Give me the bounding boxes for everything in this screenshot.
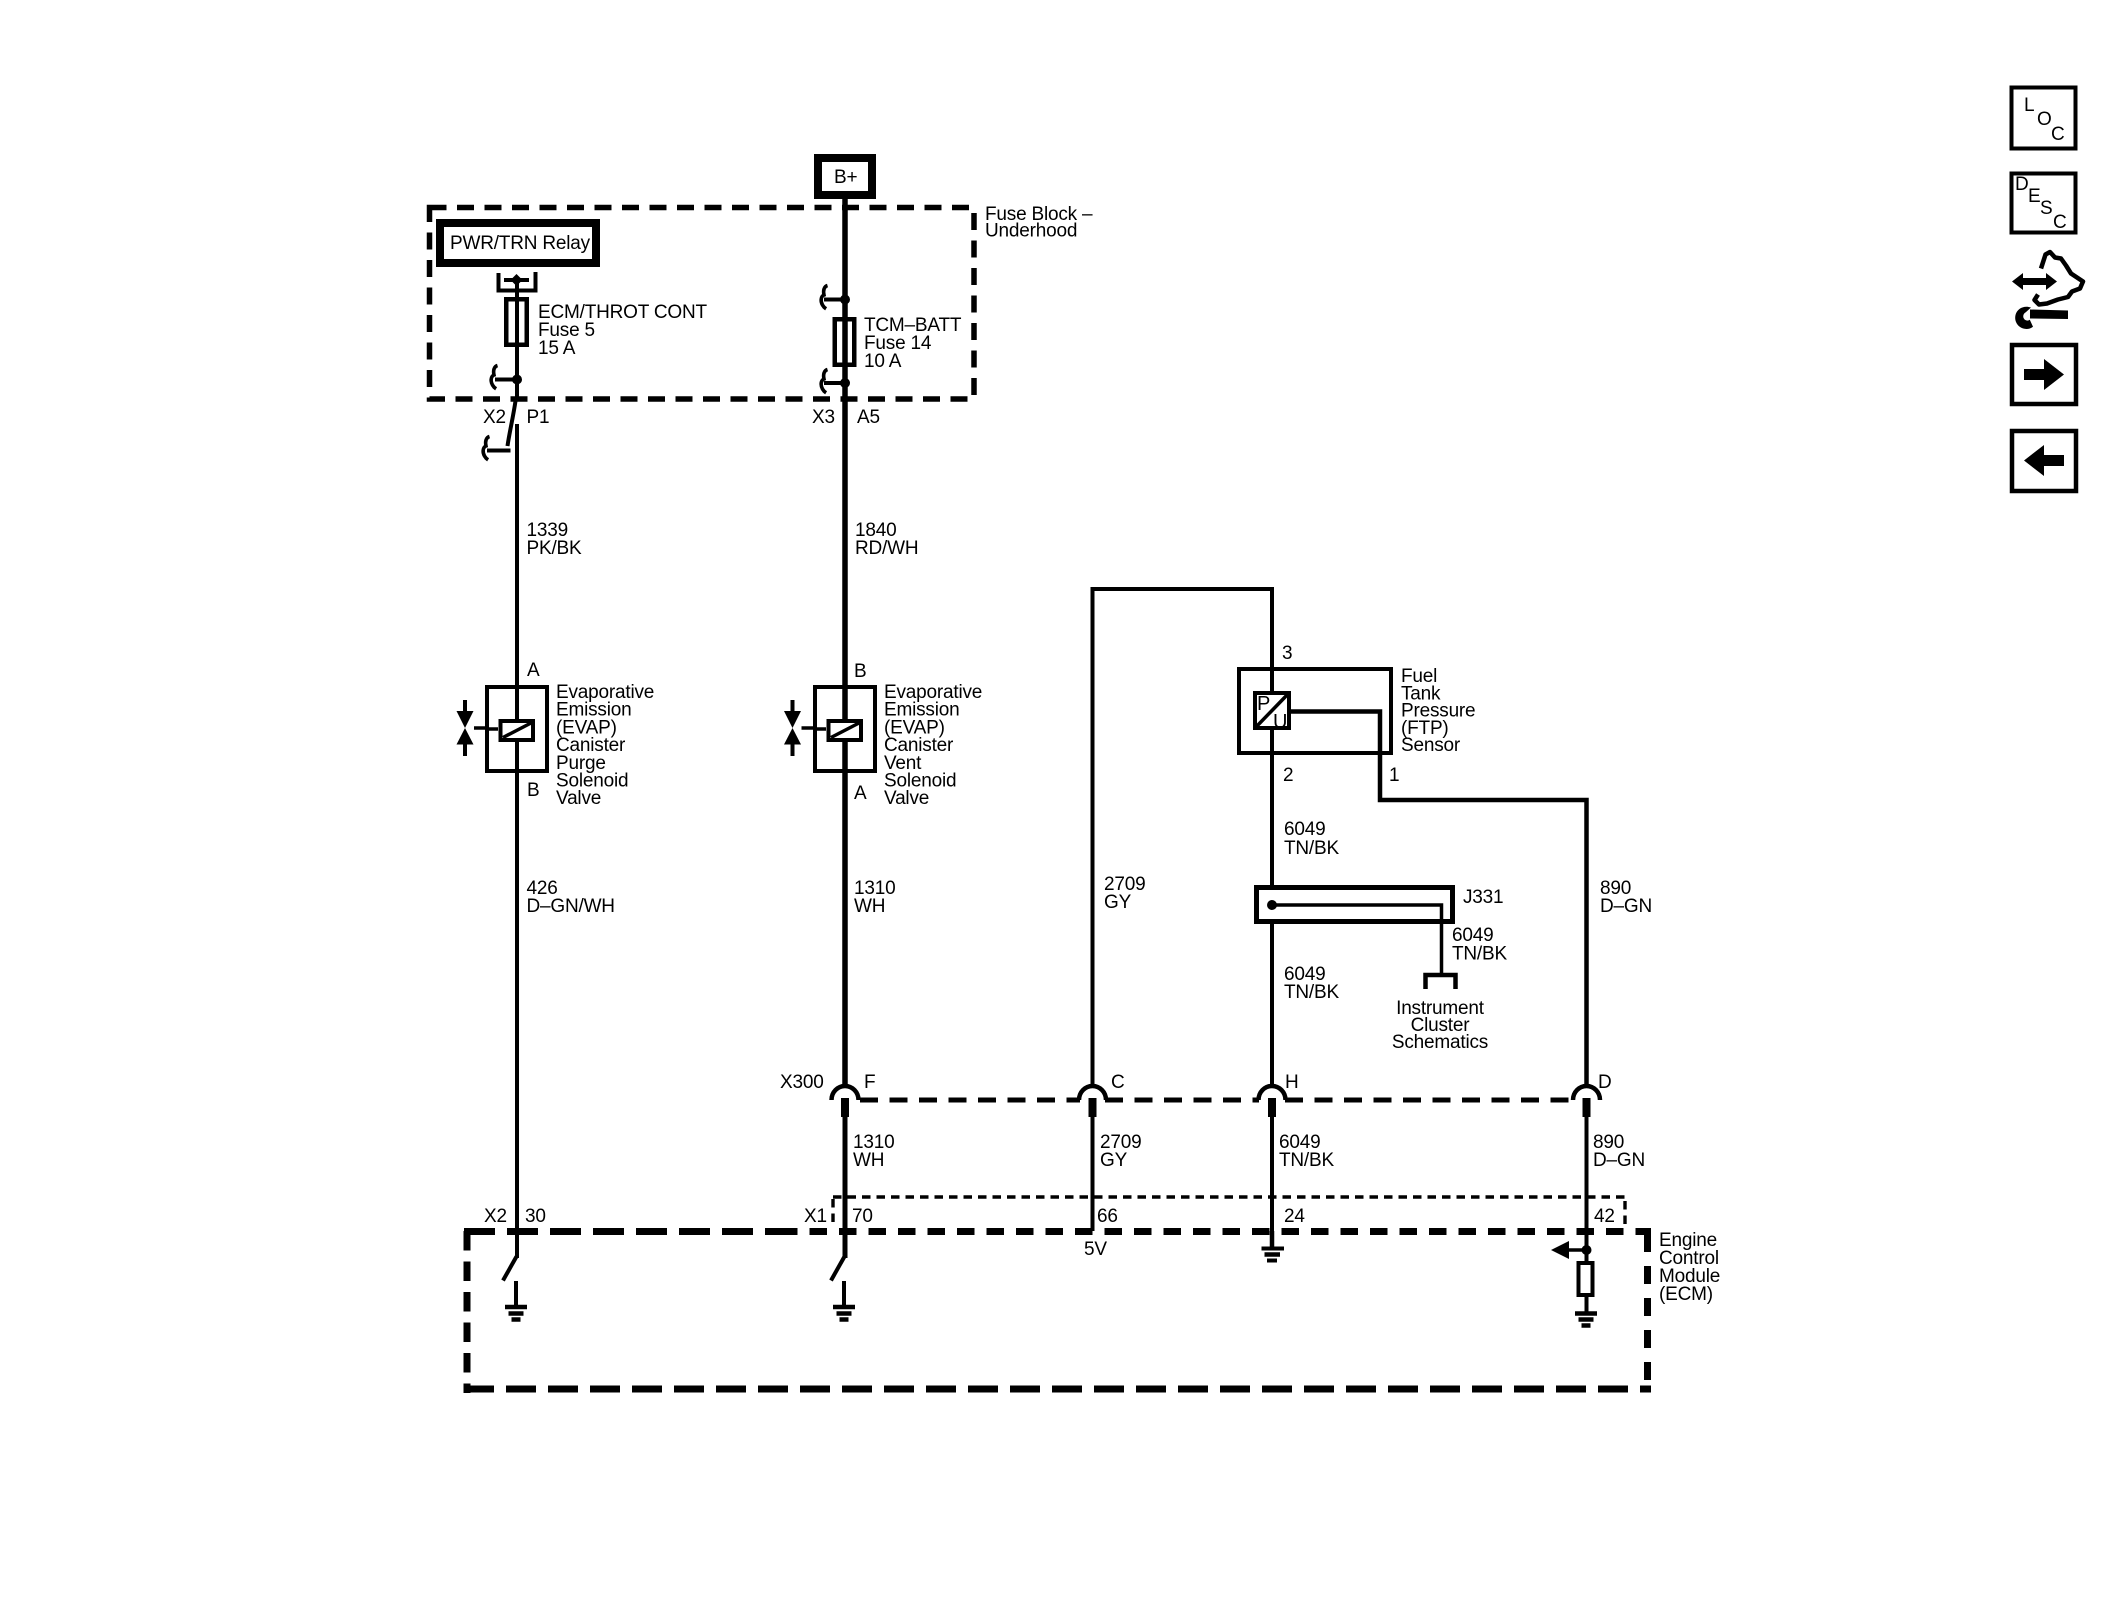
wire 890 D-GN below X300 [1585,1117,1589,1262]
svg-text:E: E [2028,186,2040,207]
svg-text:A: A [854,783,867,804]
label 6049 TN/BK (lower) [1279,1132,1334,1171]
label X1 70 (ECM pins) [804,1206,873,1227]
label B+ [834,167,857,188]
label 6049 TN/BK (main below J331) [1284,964,1339,1003]
connector X1 thin dashed boundary [833,1197,1626,1228]
wire FTP pin1 internal branch [1291,712,1587,1089]
wire 2709 GY below X300 [1091,1117,1095,1231]
svg-text:66: 66 [1097,1206,1118,1227]
svg-text:WH: WH [854,896,885,917]
svg-text:A5: A5 [857,407,880,428]
label 6049 TN/BK (splice branch) [1452,925,1507,965]
fuel tank pressure sensor box [1239,669,1391,753]
svg-text:WH: WH [853,1150,884,1171]
connector X300 dashed line [860,1098,1573,1103]
ground (ECM pin 42) [1575,1314,1597,1326]
wire B+ feed vertical [842,195,848,1088]
fuse block underhood dashed box [430,208,975,400]
sidebar icon DESC [2012,174,2076,233]
sidebar icon next arrow [2012,345,2076,404]
svg-text:TN/BK: TN/BK [1284,982,1339,1003]
svg-text:GY: GY [1104,892,1132,913]
label pin 3 FTP [1282,643,1292,664]
ECM dashed box [464,1231,1651,1393]
svg-text:J331: J331 [1463,887,1503,908]
svg-text:(ECM): (ECM) [1659,1284,1713,1305]
PWR/TRN Relay box [440,223,596,263]
wire 6049 main below J331 [1270,924,1274,1088]
vent valve pneumatic valve symbol [784,700,813,756]
svg-text:D–GN/WH: D–GN/WH [527,896,615,917]
connector terminal hook at fuse5 output [491,366,517,389]
svg-text:24: 24 [1284,1206,1305,1227]
label X2 30 (ECM pins) [484,1206,546,1227]
svg-text:RD/WH: RD/WH [855,538,918,559]
connector arc H [1259,1086,1286,1117]
svg-text:Valve: Valve [556,788,601,809]
wire 6049 TN/BK below X300 [1270,1117,1274,1231]
svg-text:P1: P1 [527,407,550,428]
svg-text:TN/BK: TN/BK [1452,944,1507,965]
connector arc D [1573,1086,1600,1117]
label pin B (purge valve bottom) [527,780,539,801]
signal arrow at pin 42 [1551,1241,1586,1259]
svg-text:C: C [2053,212,2067,233]
wire left branch vertical (relay to X2) [515,279,519,401]
svg-text:3: 3 [1282,643,1292,664]
B+ power symbol [818,158,872,195]
label pin A (vent valve bottom) [854,783,867,804]
svg-text:Schematics: Schematics [1392,1032,1488,1053]
svg-text:B: B [527,780,539,801]
label 66 [1097,1206,1118,1227]
wire J331 splice branch [1272,905,1442,973]
sidebar icon LOC [2012,88,2076,149]
label H [1285,1072,1299,1093]
label 24 [1284,1206,1305,1227]
label Fuse Block - Underhood [985,204,1093,242]
label 1840 RD/WH [855,520,918,559]
svg-text:2: 2 [1283,765,1293,786]
connector arc F [832,1086,859,1117]
ground (ECM pin 70) [833,1281,855,1320]
svg-text:D–GN: D–GN [1593,1150,1645,1171]
label X300 [780,1072,824,1093]
label 1310 WH (lower) [853,1132,894,1171]
ground (ECM pin 24) [1262,1231,1285,1261]
junction dot fuse14 output [840,378,850,388]
label P [1257,693,1270,715]
label Instrument Cluster Schematics [1392,998,1488,1053]
label 890 D-GN (upper) [1600,878,1652,917]
svg-text:TN/BK: TN/BK [1279,1150,1334,1171]
svg-text:C: C [2051,124,2065,145]
svg-text:1: 1 [1389,765,1399,786]
label Evaporative Emission (EVAP) Canister Purge Solenoid Valve [556,682,654,809]
label 5V [1084,1239,1107,1260]
junction dot pin 42 [1582,1245,1592,1255]
connector terminal hook at fuse14 output [821,370,845,393]
svg-text:PWR/TRN Relay: PWR/TRN Relay [450,233,591,254]
fuse F5 ECM/THROT CONT 15A [506,299,527,345]
svg-text:5V: 5V [1084,1239,1107,1260]
svg-text:A: A [527,660,540,681]
purge valve pneumatic valve symbol [457,700,486,756]
svg-text:TN/BK: TN/BK [1284,838,1339,859]
label TCM-BATT Fuse 14 10 A [864,315,962,372]
svg-text:D: D [2015,174,2029,195]
label 6049 TN/BK (FTP pin2) [1284,819,1339,859]
svg-text:Underhood: Underhood [985,221,1077,242]
svg-text:H: H [1285,1072,1299,1093]
wire resistor to ground [1585,1297,1589,1314]
label PWR/TRN Relay [450,233,591,254]
label pin 2 FTP [1283,765,1293,786]
svg-text:X300: X300 [780,1072,824,1093]
svg-text:PK/BK: PK/BK [527,538,582,559]
connector diagonal at pin 30 [503,1257,517,1281]
splice J331 box [1257,888,1453,922]
sidebar icon back arrow [2012,431,2076,491]
label 426 D-GN/WH [527,878,615,917]
label 2709 GY (lower) [1100,1132,1141,1171]
label F [864,1072,875,1093]
ground (ECM pin 30) [505,1281,527,1320]
svg-text:70: 70 [852,1206,873,1227]
svg-text:D–GN: D–GN [1600,896,1652,917]
label 890 D-GN (lower) [1593,1132,1645,1171]
junction dot fuse14 input [840,295,850,305]
label C [1111,1072,1125,1093]
svg-text:42: 42 [1594,1206,1615,1227]
label pin A (purge valve top) [527,660,540,681]
wire FTP internal vertical [1270,667,1274,885]
svg-text:X2: X2 [483,407,506,428]
svg-text:U: U [1273,711,1287,733]
connector X2/P1 diagonal crossing [508,401,516,446]
sidebar icon schematic navigate (arrow + wrench) [2012,252,2083,329]
off-page connector bracket to instrument cluster [1426,975,1456,989]
junction dot fuse5 output [512,375,522,385]
svg-text:F: F [864,1072,875,1093]
resistor (ECM internal pull) [1579,1263,1593,1295]
connector terminal hook at fuse14 input [821,286,845,309]
svg-text:Valve: Valve [884,788,929,809]
label Fuel Tank Pressure (FTP) Sensor [1401,666,1475,756]
EVAP canister purge solenoid valve box [487,687,547,771]
connector diagonal at pin 70 [831,1257,845,1281]
svg-text:P: P [1257,693,1270,715]
EVAP canister vent solenoid valve box [815,687,875,771]
label 2709 GY (upper) [1104,874,1145,913]
svg-text:6049: 6049 [1284,819,1325,840]
wire jumper top horizontal (FTP pin3 to 2709 branch) [1093,589,1273,1088]
svg-text:L: L [2024,95,2034,116]
relay contact (PWR/TRN relay output) [497,272,538,291]
svg-text:S: S [2040,198,2052,219]
label Engine Control Module (ECM) [1659,1230,1720,1305]
label D [1598,1072,1612,1093]
purge valve solenoid coil [485,721,533,740]
label 42 [1594,1206,1615,1227]
svg-text:B+: B+ [834,167,857,188]
label X3 A5 [812,407,880,428]
svg-text:15 A: 15 A [538,338,576,359]
label U [1273,711,1287,733]
svg-text:Sensor: Sensor [1401,735,1461,756]
svg-text:C: C [1111,1072,1125,1093]
svg-text:X3: X3 [812,407,835,428]
svg-text:GY: GY [1100,1150,1128,1171]
svg-text:10 A: 10 A [864,351,902,372]
label ECM/THROT CONT Fuse 5 15 A [538,302,707,359]
label X2 P1 [483,407,549,428]
label 1339 PK/BK [527,520,582,559]
label pin B (vent valve top) [854,661,866,682]
label J331 [1463,887,1503,908]
svg-text:D: D [1598,1072,1612,1093]
label Evaporative Emission (EVAP) Canister Vent Solenoid Valve [884,682,982,809]
connector terminal hook at X2/P1 [483,437,510,460]
wire 1310 WH below X300 [843,1117,848,1258]
FTP P/U transducer symbol [1255,693,1289,728]
svg-text:O: O [2037,109,2052,130]
label 1310 WH [854,878,895,917]
label pin 1 FTP [1389,765,1399,786]
junction dot J331 [1267,900,1277,910]
svg-text:B: B [854,661,866,682]
fuse F14 TCM-BATT 10A [835,319,855,365]
svg-text:X2: X2 [484,1206,507,1227]
svg-text:30: 30 [525,1206,546,1227]
connector arc C [1079,1086,1106,1117]
vent valve solenoid coil [813,721,861,740]
svg-text:X1: X1 [804,1206,827,1227]
wire 1339 PK/BK vertical [515,424,519,1258]
